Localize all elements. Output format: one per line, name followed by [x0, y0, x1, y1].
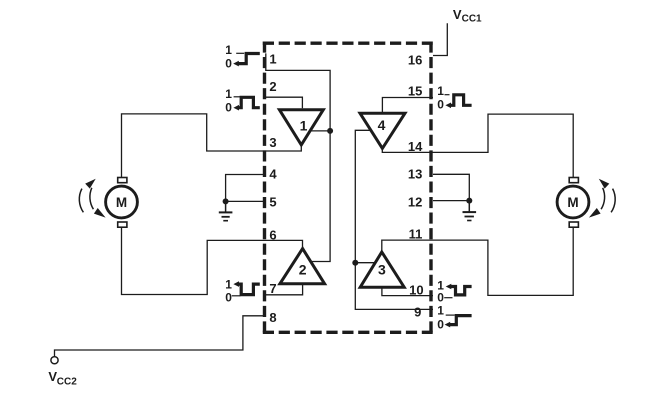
svg-text:1: 1: [269, 51, 276, 66]
wire pin 12 to ground: [433, 200, 469, 202]
svg-text:2: 2: [299, 262, 307, 278]
wire enable branch to driver 3: [355, 262, 375, 264]
svg-text:M: M: [567, 195, 578, 210]
svg-text:0: 0: [437, 317, 444, 331]
driver triangle 1: [279, 110, 323, 145]
driver triangle 3: [360, 252, 404, 287]
svg-text:9: 9: [414, 304, 421, 319]
wire pin 4 to ground: [226, 175, 263, 202]
svg-text:M: M: [116, 195, 127, 210]
wire pin 15 input: [382, 98, 433, 114]
svg-text:CC2: CC2: [57, 377, 77, 388]
wire pin 10 input: [382, 287, 433, 295]
svg-text:8: 8: [269, 310, 276, 325]
svg-text:4: 4: [269, 167, 277, 182]
node junction dot enable 3,4: [352, 260, 358, 266]
svg-text:0: 0: [437, 98, 444, 112]
wire pin 6 output to left motor bottom: [122, 227, 303, 295]
ground right (pins 12,13): [466, 198, 472, 204]
svg-text:1: 1: [437, 304, 444, 318]
svg-text:16: 16: [408, 53, 422, 68]
svg-text:CC1: CC1: [462, 13, 482, 24]
svg-text:2: 2: [269, 79, 276, 94]
svg-text:5: 5: [269, 195, 276, 210]
wire pin 13 to ground: [433, 174, 469, 200]
driver triangle 4: [360, 113, 405, 148]
svg-text:1: 1: [225, 277, 232, 291]
wire pin 11 output to right motor bottom: [382, 227, 573, 296]
svg-text:1: 1: [225, 43, 232, 57]
node junction dot enable 1,2: [327, 128, 333, 134]
motor M right: [557, 186, 589, 218]
svg-text:0: 0: [225, 290, 232, 304]
ground left (pins 4,5): [223, 198, 229, 204]
svg-text:1: 1: [225, 87, 232, 101]
driver triangle 2: [280, 249, 325, 284]
svg-text:13: 13: [408, 167, 422, 182]
svg-text:3: 3: [378, 261, 386, 277]
svg-text:0: 0: [225, 100, 232, 114]
svg-text:1: 1: [300, 118, 308, 134]
svg-text:0: 0: [437, 291, 444, 305]
wire pin 9 enable bus: [355, 130, 433, 309]
wire pin 3 output to left motor top: [122, 114, 302, 178]
svg-text:7: 7: [269, 281, 276, 296]
svg-text:6: 6: [269, 227, 276, 242]
terminal VCC2: [51, 357, 58, 364]
svg-text:10: 10: [409, 283, 423, 298]
wire pin 7 input: [263, 284, 303, 295]
wire enable branch to driver 1: [311, 130, 331, 132]
wire pin 14 output to right motor top: [382, 114, 573, 178]
wire pin 5 to ground: [226, 200, 263, 202]
svg-text:0: 0: [225, 56, 232, 70]
svg-text:15: 15: [408, 83, 422, 98]
wire pin 2 input: [263, 97, 302, 108]
rotation arrows right motor: [611, 189, 615, 213]
IC package dashed outline: [263, 42, 433, 45]
rotation arrows left motor: [79, 189, 83, 213]
wire pin 1 enable bus: [266, 53, 330, 261]
svg-text:11: 11: [409, 227, 423, 242]
svg-text:4: 4: [378, 117, 386, 133]
svg-text:1: 1: [437, 84, 444, 98]
svg-text:14: 14: [408, 139, 423, 154]
motor M left: [106, 186, 138, 218]
svg-text:V: V: [453, 7, 462, 22]
wire pin 16 to VCC1: [433, 23, 447, 55]
svg-text:12: 12: [408, 194, 422, 209]
wire pin 8 to VCC2: [55, 316, 264, 356]
svg-text:3: 3: [269, 135, 276, 150]
